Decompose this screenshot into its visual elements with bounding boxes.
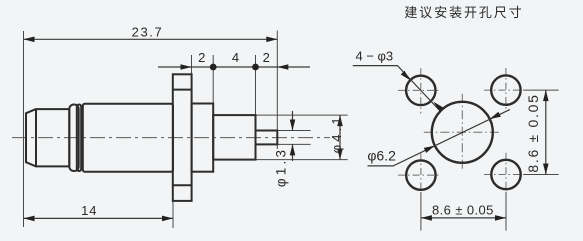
center hole phi6.2 [432,102,493,163]
flange plate [173,74,192,201]
connector body [83,104,173,172]
crosshair center hole [424,94,501,171]
flange corner line bottom [173,184,192,186]
svg-text:8.6 ± 0.05: 8.6 ± 0.05 [525,93,541,172]
rear section B phi4.1 [213,115,255,160]
hole top-right [491,75,520,104]
dim 8.6 bottom [421,217,506,219]
svg-text:2: 2 [198,50,205,65]
flange corner line top [173,89,192,91]
svg-text:14: 14 [81,203,97,218]
svg-text:建议安装开孔尺寸: 建议安装开孔尺寸 [404,5,523,20]
rear section A [192,104,214,172]
dim 8.6 right [545,90,547,174]
svg-text:φ1.3: φ1.3 [274,147,289,187]
junction dot B [252,64,259,71]
junction dot A [210,64,217,71]
svg-text:2: 2 [263,50,270,65]
svg-text:8.6 ± 0.05: 8.6 ± 0.05 [432,202,494,217]
extension stub node B [255,55,257,115]
centerline [12,137,330,139]
leader phi6.2 [368,110,510,166]
connector barrel [36,109,69,166]
extension line left (tip) [23,31,25,227]
hole bottom-right [491,160,520,189]
dim phi4.1 [339,115,341,160]
svg-text:4: 4 [232,50,239,65]
extension stub node A [212,55,214,104]
dim 14 line [24,217,174,219]
crosshair hole top-right [484,68,524,112]
extension line flange left bottom [172,201,174,228]
crosshair hole top-left [398,68,442,113]
dim 23.7 line [24,38,278,40]
dim phi1.3 [292,111,294,131]
svg-text:φ4.1: φ4.1 [329,114,344,153]
crosshair hole bottom-left [398,154,442,193]
bead ring 1 [69,105,78,172]
extension stub flange right [191,55,193,74]
pin phi1.3 [256,131,278,145]
crosshair hole bottom-right [484,153,524,192]
leader 4-phi3 [353,66,439,110]
extension line right (pin end) [276,31,278,150]
hole bottom-left [406,160,435,189]
bead ring 2 [77,105,81,172]
dim 2-4-2 line [158,66,310,68]
extension lines phi4.1 [256,114,348,116]
connector nose [26,109,36,166]
svg-text:23.7: 23.7 [132,25,164,40]
svg-text:4 − φ3: 4 − φ3 [355,49,393,64]
extension lines pin phi1.3 [277,130,310,132]
hole top-left [406,76,435,105]
svg-text:φ6.2: φ6.2 [367,147,396,163]
